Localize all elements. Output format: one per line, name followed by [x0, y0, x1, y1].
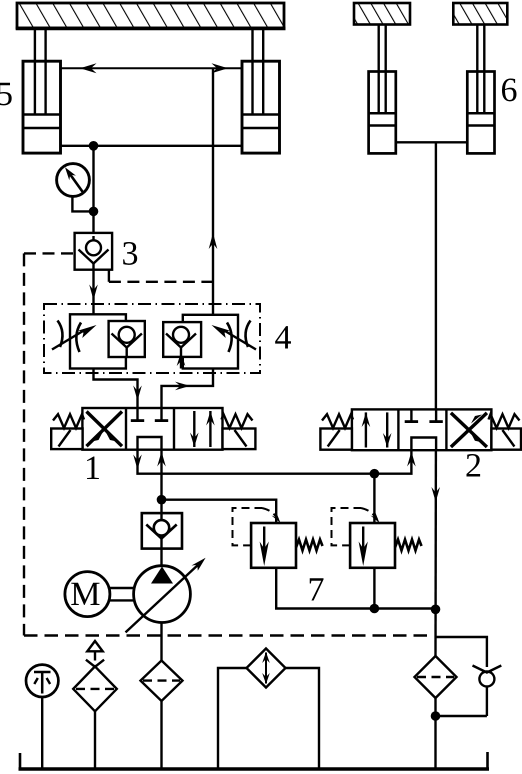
- pressure gauge: [57, 164, 94, 212]
- wire working line A: throttle 4 left to valve 1 port A: [94, 369, 142, 409]
- wire pump suction line: [160, 623, 162, 661]
- wire return line valve 2 down to filter: [431, 450, 440, 656]
- throttle check valve 4 right: flow arrow diagonal: [212, 325, 257, 350]
- valve 1 right position parallel arrows: [190, 411, 215, 447]
- label 1: [87, 457, 99, 479]
- fixed wall (hatched) above cylinders 5: [16, 3, 286, 28]
- node junction return filter line: [431, 605, 441, 615]
- wire supply line cylinders 6 to valve 2: [435, 142, 437, 409]
- valve 1 right solenoid box and spring: [222, 414, 256, 449]
- wire line B from rod-end line down to valve group 4: [209, 68, 218, 315]
- cylinder 5 right piston rod: [253, 29, 264, 115]
- cylinder 6 left piston rod: [379, 25, 386, 115]
- directional valve 2 body: [352, 409, 492, 450]
- valve 2 right position crossed arrows: [451, 413, 487, 447]
- wire rod-end line with motion arrows between cylinders 5: [61, 63, 243, 73]
- valve 2 left position parallel arrows: [362, 412, 392, 447]
- check valve above pump: [142, 513, 182, 549]
- valve 2 centre position blocked ports: [405, 409, 443, 450]
- throttle check valve 4 left: inner check valve box: [109, 321, 145, 357]
- cooler: [218, 649, 319, 770]
- node junction below return filter: [431, 711, 441, 721]
- throttle check valve 4 left: flow arrow diagonal: [52, 325, 97, 350]
- cylinder 5 right body: [242, 61, 280, 153]
- cylinder 6 right body: [467, 72, 494, 154]
- node junction return line to relief valve: [370, 469, 380, 479]
- throttle check valve 4 right: throttle arcs on right edge: [227, 321, 251, 353]
- enclosure of one-way throttle valves 4 (dash-dot box): [44, 304, 260, 373]
- node junction pump line: [157, 495, 167, 505]
- cylinder 5 left piston rod: [35, 29, 46, 115]
- wire relief valves outlet to return line: [276, 568, 435, 609]
- wire suction filter to tank: [160, 701, 162, 769]
- wire tank return line from valve 1 to valve 2: [133, 450, 416, 474]
- label 3: [123, 242, 137, 265]
- wire dashed drain border bottom: [24, 634, 429, 636]
- valve 2 right solenoid box and spring: [489, 414, 522, 450]
- bypass check valve: [473, 666, 502, 687]
- valve 1 left position crossed arrows: [87, 412, 123, 447]
- label 2: [466, 454, 480, 477]
- throttle check valve 4 left: outer box: [70, 314, 126, 368]
- label 7: [310, 578, 324, 600]
- throttle check valve 4 left: throttle arcs on left edge: [58, 321, 82, 353]
- relief valve 7 right: [350, 523, 421, 568]
- relief valve 7 left: [251, 523, 322, 568]
- label 4: [275, 326, 291, 348]
- throttle check valve 4 right: inner check valve box: [163, 322, 201, 368]
- air breather: [73, 641, 117, 769]
- suction filter: [141, 661, 183, 702]
- return filter: [415, 656, 457, 698]
- electric motor M: [65, 572, 134, 617]
- wire right relief valve inlet: [373, 474, 375, 523]
- valve 2 left solenoid box and spring: [320, 414, 353, 450]
- variable displacement pump: [126, 558, 206, 633]
- tank: [19, 752, 490, 769]
- wire dashed drain border left: [23, 253, 25, 635]
- cylinder 6 right piston rod: [477, 25, 484, 115]
- wire pump line branch to left relief valve: [162, 500, 277, 523]
- node junction gauge line: [89, 207, 99, 217]
- wire pilot line from valve 3 to line B: [109, 270, 213, 282]
- wire return filter to tank: [434, 698, 436, 769]
- fixed wall above cylinder 6 left: [354, 3, 410, 25]
- valve 1 left solenoid box and spring: [51, 414, 84, 449]
- valve 1 centre position blocked ports: [131, 408, 168, 450]
- node junction cap line: [89, 141, 99, 151]
- wire line A from valve 3 down into throttle unit: [89, 270, 98, 315]
- fluid level gauge: [26, 665, 58, 769]
- check valve 3: [75, 233, 113, 270]
- wire bypass line with check valve: [436, 637, 487, 716]
- wire pilot dashed right relief valve: [332, 508, 380, 545]
- label 6: [502, 78, 517, 101]
- wire manifold between cylinders 6: [396, 141, 468, 143]
- wire working line B: valve 1 port B to throttle 4 right: [162, 369, 214, 409]
- wire pilot dashed left relief valve: [233, 508, 281, 545]
- wire line A from cap line down to check valve 3: [92, 146, 94, 233]
- node junction relief outlets: [370, 604, 380, 614]
- wire check valve to pump: [160, 549, 162, 567]
- wire pilot dashed line left of valve 3: [24, 252, 75, 254]
- label 5: [0, 83, 12, 106]
- directional valve 1 body: [82, 408, 222, 450]
- cylinder 5 left body: [23, 61, 61, 153]
- throttle check valve 4 right: outer box: [183, 315, 238, 369]
- fixed wall above cylinder 6 right: [453, 3, 507, 25]
- wire pressure line pump to valve 1: [157, 451, 166, 514]
- wire cap-end line between cylinders 5: [61, 145, 243, 147]
- cylinder 6 left body: [369, 72, 396, 154]
